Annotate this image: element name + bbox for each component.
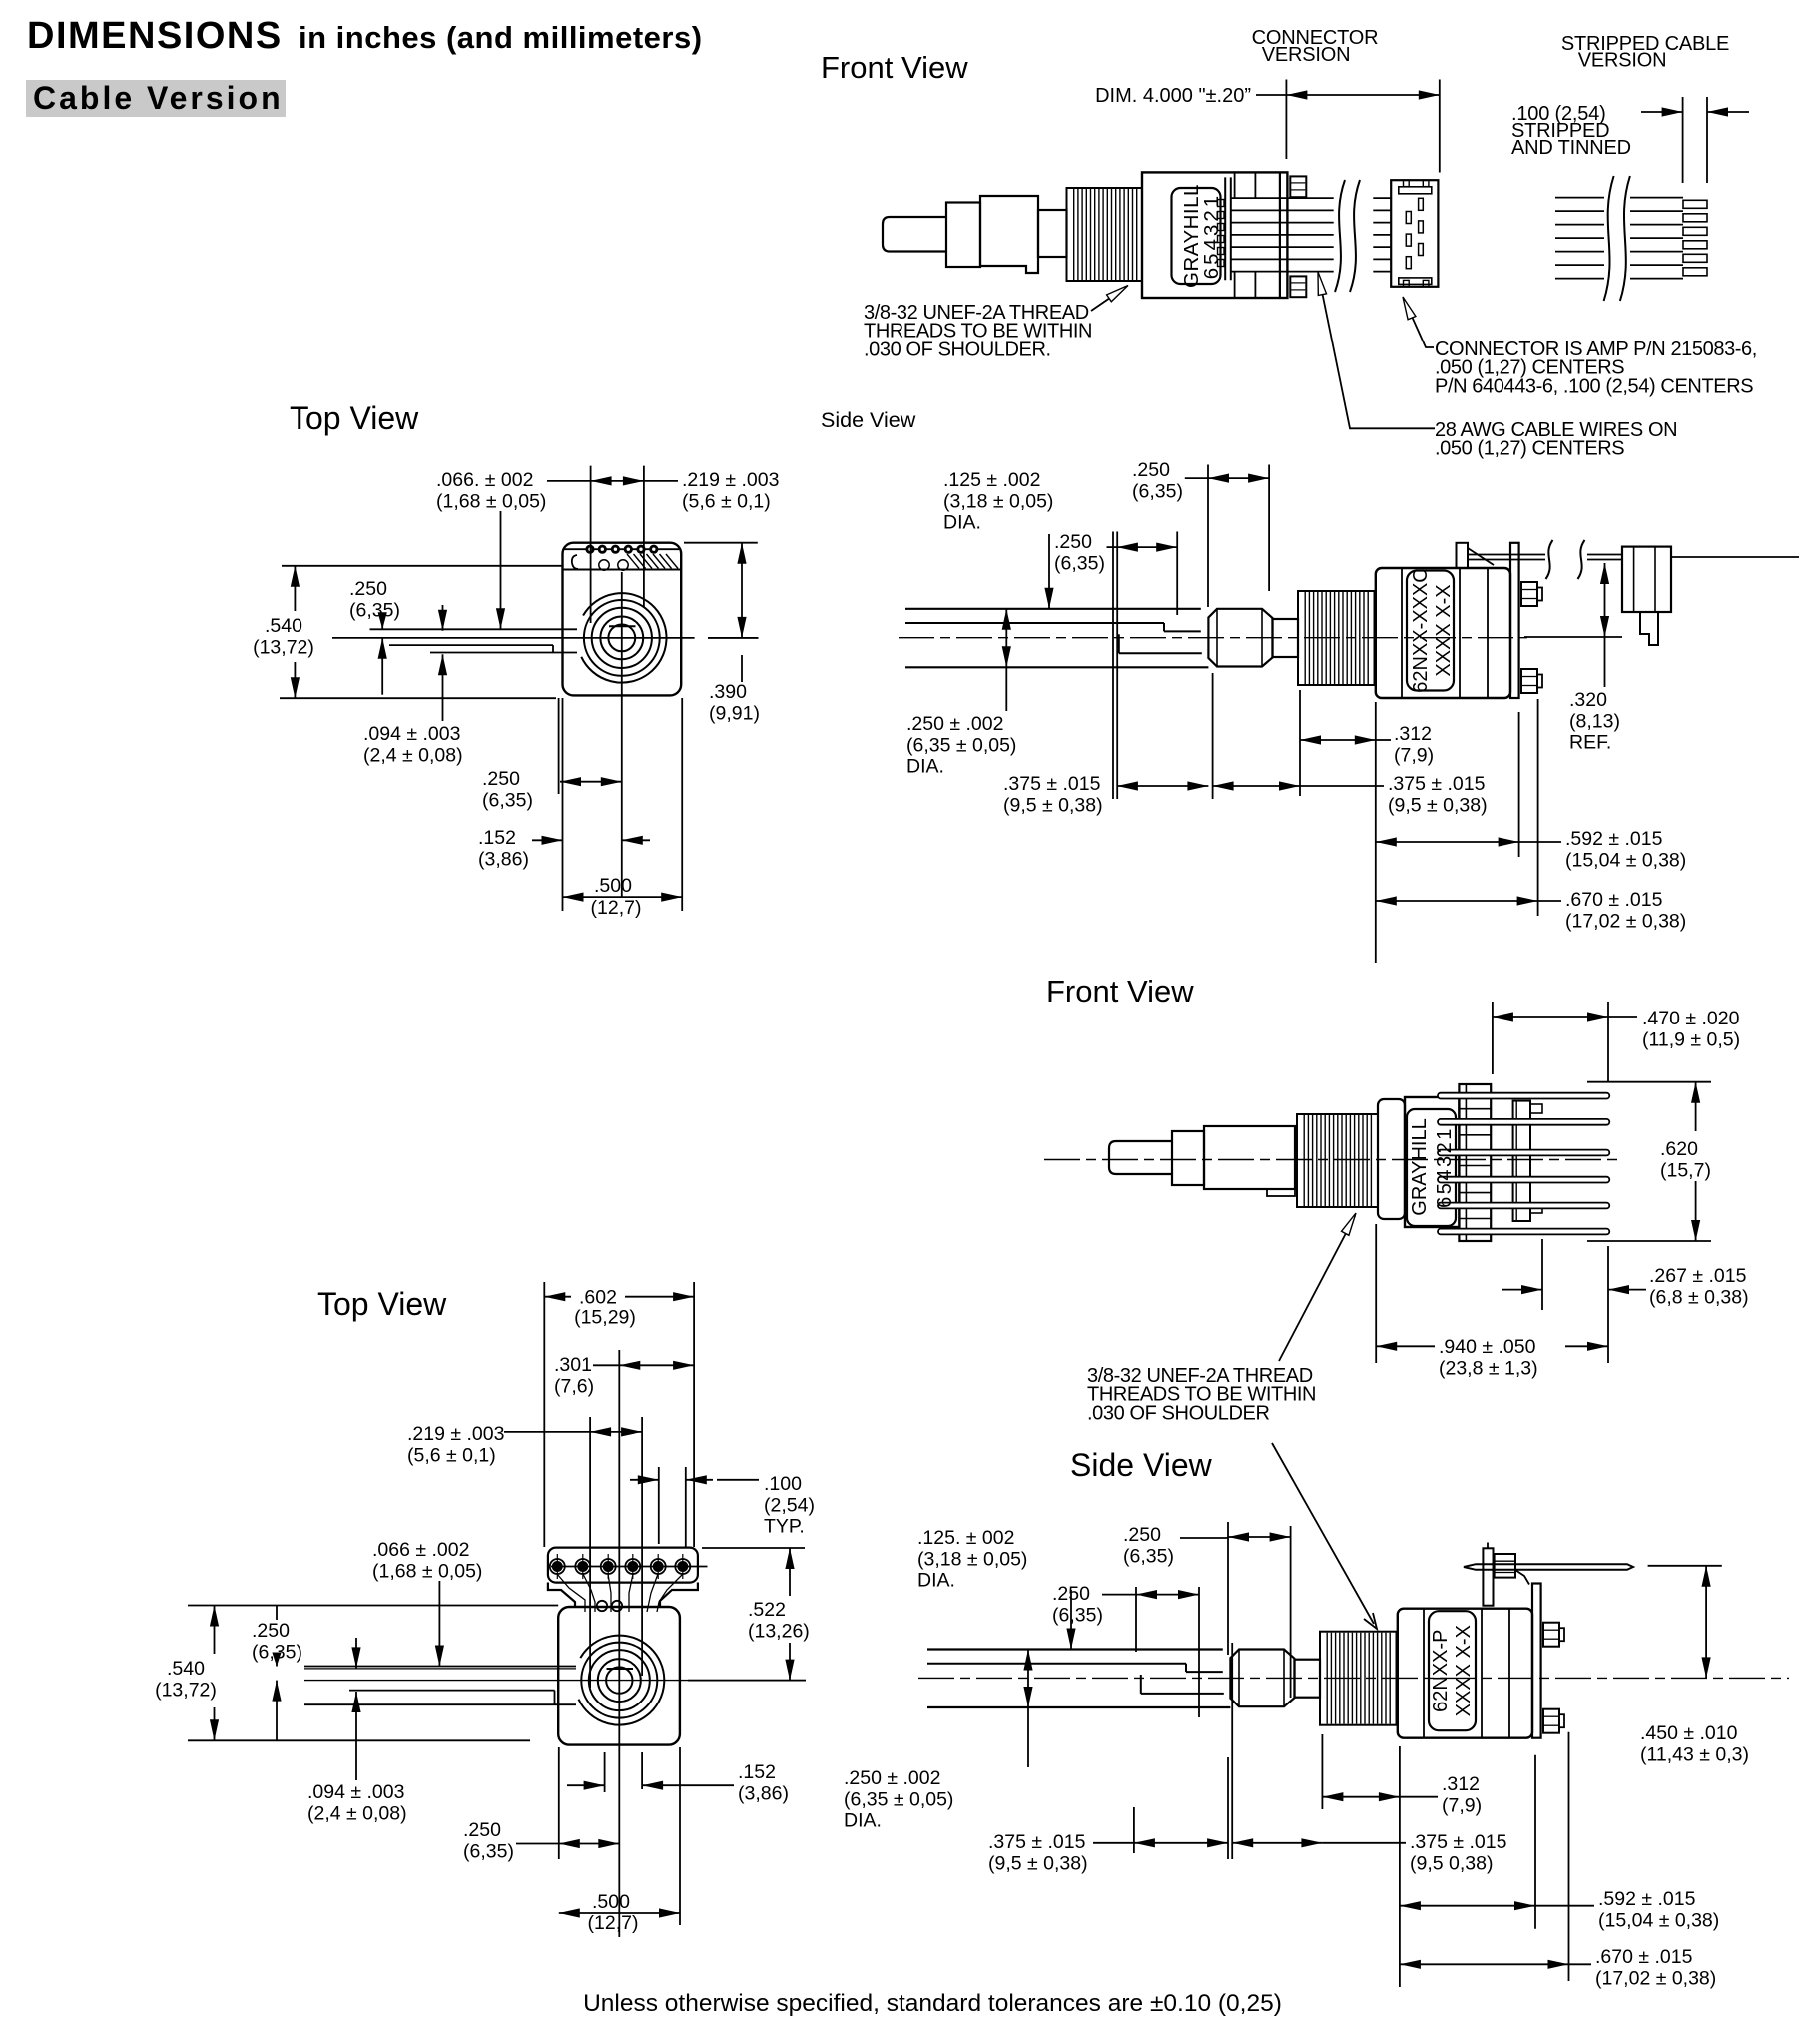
svg-text:.152: .152 xyxy=(478,827,516,849)
svg-text:DIA.: DIA. xyxy=(906,756,944,778)
svg-text:(2,4 ± 0,08): (2,4 ± 0,08) xyxy=(307,1802,407,1824)
svg-text:.450 ± .010: .450 ± .010 xyxy=(1640,1722,1738,1744)
svg-text:.250: .250 xyxy=(1054,531,1092,553)
svg-text:.250: .250 xyxy=(1132,459,1170,481)
svg-text:.312: .312 xyxy=(1394,723,1432,745)
svg-text:(15,04 ± 0,38): (15,04 ± 0,38) xyxy=(1598,1909,1719,1931)
svg-text:(6,35): (6,35) xyxy=(463,1840,514,1862)
svg-text:(9,5 ± 0,38): (9,5 ± 0,38) xyxy=(988,1852,1088,1874)
svg-text:Top View: Top View xyxy=(317,1286,447,1322)
svg-text:.250: .250 xyxy=(463,1819,501,1841)
svg-text:.301: .301 xyxy=(554,1354,592,1376)
svg-text:(12,7): (12,7) xyxy=(588,1912,639,1934)
svg-text:.125 ± .002: .125 ± .002 xyxy=(943,469,1040,491)
svg-text:(9,5 ± 0,38): (9,5 ± 0,38) xyxy=(1003,794,1103,816)
svg-text:.030 OF SHOULDER.: .030 OF SHOULDER. xyxy=(864,339,1051,360)
svg-text:(1,68 ± 0,05): (1,68 ± 0,05) xyxy=(372,1560,482,1582)
svg-text:(7,9): (7,9) xyxy=(1394,744,1434,766)
svg-text:.219 ± .003: .219 ± .003 xyxy=(407,1423,504,1445)
svg-text:.500: .500 xyxy=(592,1891,630,1913)
svg-text:.940 ± .050: .940 ± .050 xyxy=(1439,1336,1536,1358)
svg-text:DIM. 4.000 "±.20”: DIM. 4.000 "±.20” xyxy=(1095,85,1251,107)
svg-text:Top View: Top View xyxy=(290,400,419,436)
svg-text:.094 ± .003: .094 ± .003 xyxy=(363,723,460,745)
svg-text:Side View: Side View xyxy=(821,408,916,432)
svg-text:.320: .320 xyxy=(1569,689,1607,711)
svg-text:Side View: Side View xyxy=(1070,1447,1213,1483)
svg-text:(9,5 0,38): (9,5 0,38) xyxy=(1410,1852,1493,1874)
svg-text:.592 ± .015: .592 ± .015 xyxy=(1598,1888,1696,1910)
svg-text:.250: .250 xyxy=(482,768,520,790)
svg-text:VERSION: VERSION xyxy=(1578,50,1667,72)
svg-text:62NXX-P: 62NXX-P xyxy=(1430,1630,1452,1712)
svg-text:.066. ± 002: .066. ± 002 xyxy=(436,469,533,491)
svg-text:.250 ± .002: .250 ± .002 xyxy=(844,1767,940,1789)
svg-text:(11,43 ± 0,3): (11,43 ± 0,3) xyxy=(1640,1743,1749,1765)
svg-text:VERSION: VERSION xyxy=(1262,44,1351,66)
svg-text:(5,6 ± 0,1): (5,6 ± 0,1) xyxy=(407,1444,496,1466)
svg-text:GRAYHILL: GRAYHILL xyxy=(1409,1118,1431,1215)
svg-text:.030 OF SHOULDER: .030 OF SHOULDER xyxy=(1087,1402,1270,1424)
svg-text:(6,35): (6,35) xyxy=(1123,1545,1174,1567)
svg-text:(3,18 ± 0,05): (3,18 ± 0,05) xyxy=(943,490,1053,512)
svg-text:.540: .540 xyxy=(167,1658,205,1680)
svg-text:(15,29): (15,29) xyxy=(574,1307,636,1329)
svg-text:TYP.: TYP. xyxy=(764,1516,805,1538)
svg-text:REF.: REF. xyxy=(1569,732,1611,754)
svg-text:.390: .390 xyxy=(709,681,747,703)
svg-text:.375 ± .015: .375 ± .015 xyxy=(1388,773,1486,795)
svg-text:.250: .250 xyxy=(1123,1524,1161,1546)
svg-text:.066 ± .002: .066 ± .002 xyxy=(372,1539,469,1561)
svg-text:.100: .100 xyxy=(764,1473,802,1495)
svg-text:(7,6): (7,6) xyxy=(554,1375,594,1397)
svg-text:(9,5 ± 0,38): (9,5 ± 0,38) xyxy=(1388,794,1488,816)
svg-text:.375 ± .015: .375 ± .015 xyxy=(1003,773,1101,795)
svg-text:.602: .602 xyxy=(579,1287,617,1309)
svg-text:DIA.: DIA. xyxy=(917,1570,955,1592)
svg-text:.670 ± .015: .670 ± .015 xyxy=(1565,889,1663,911)
svg-text:.125. ± 002: .125. ± 002 xyxy=(917,1527,1014,1549)
svg-text:DIA.: DIA. xyxy=(844,1810,882,1832)
svg-text:Front View: Front View xyxy=(821,50,968,85)
svg-text:(6,35): (6,35) xyxy=(1052,1604,1103,1626)
svg-text:(2,54): (2,54) xyxy=(764,1494,815,1516)
svg-text:.592 ± .015: .592 ± .015 xyxy=(1565,828,1663,850)
svg-text:P/N 640443-6, .100 (2,54) CENT: P/N 640443-6, .100 (2,54) CENTERS xyxy=(1435,375,1753,397)
svg-text:(13,72): (13,72) xyxy=(253,636,314,658)
svg-text:(17,02 ± 0,38): (17,02 ± 0,38) xyxy=(1565,910,1686,932)
svg-text:(6,35 ± 0,05): (6,35 ± 0,05) xyxy=(844,1788,953,1810)
svg-text:(12,7): (12,7) xyxy=(591,897,642,919)
svg-text:.500: .500 xyxy=(594,875,632,897)
svg-text:(23,8 ± 1,3): (23,8 ± 1,3) xyxy=(1439,1357,1538,1379)
svg-text:XXXX X-X: XXXX X-X xyxy=(1433,584,1455,676)
svg-text:(17,02 ± 0,38): (17,02 ± 0,38) xyxy=(1595,1967,1716,1989)
svg-text:DIMENSIONS: DIMENSIONS xyxy=(27,15,283,57)
svg-text:AND TINNED: AND TINNED xyxy=(1511,137,1631,159)
svg-text:(3,86): (3,86) xyxy=(478,848,529,870)
svg-text:Front View: Front View xyxy=(1046,974,1194,1009)
svg-text:(6,35): (6,35) xyxy=(349,599,400,621)
svg-text:(3,18 ± 0,05): (3,18 ± 0,05) xyxy=(917,1548,1027,1570)
svg-text:(7,9): (7,9) xyxy=(1442,1794,1482,1816)
svg-text:(2,4 ± 0,08): (2,4 ± 0,08) xyxy=(363,744,463,766)
svg-text:.312: .312 xyxy=(1442,1773,1480,1795)
svg-text:.250: .250 xyxy=(349,578,387,600)
svg-text:.470 ± .020: .470 ± .020 xyxy=(1642,1008,1740,1029)
svg-text:.267 ± .015: .267 ± .015 xyxy=(1649,1265,1747,1287)
svg-text:(6,35): (6,35) xyxy=(482,789,533,811)
svg-text:(15,04 ± 0,38): (15,04 ± 0,38) xyxy=(1565,849,1686,871)
svg-text:.522: .522 xyxy=(748,1599,786,1621)
svg-text:DIA.: DIA. xyxy=(943,512,981,534)
svg-text:.620: .620 xyxy=(1660,1138,1698,1160)
svg-text:654321: 654321 xyxy=(1434,1126,1456,1208)
svg-text:Cable Version: Cable Version xyxy=(33,80,284,116)
svg-text:.250: .250 xyxy=(252,1620,290,1642)
svg-text:(5,6 ± 0,1): (5,6 ± 0,1) xyxy=(682,490,771,512)
svg-text:(6,35): (6,35) xyxy=(1054,552,1105,574)
svg-text:in inches (and millimeters): in inches (and millimeters) xyxy=(299,20,703,55)
svg-text:.375 ± .015: .375 ± .015 xyxy=(988,1831,1086,1853)
svg-text:(6,8 ± 0,38): (6,8 ± 0,38) xyxy=(1649,1286,1749,1308)
svg-text:62NXX-XXXC: 62NXX-XXXC xyxy=(1410,568,1432,693)
svg-text:(13,72): (13,72) xyxy=(155,1679,217,1701)
svg-text:Unless otherwise specified, st: Unless otherwise specified, standard tol… xyxy=(583,1990,1282,2017)
svg-text:(9,91): (9,91) xyxy=(709,702,760,724)
svg-text:.250 ± .002: .250 ± .002 xyxy=(906,713,1003,735)
svg-text:(15,7): (15,7) xyxy=(1660,1159,1711,1181)
svg-text:(11,9 ± 0,5): (11,9 ± 0,5) xyxy=(1642,1028,1740,1050)
svg-text:.670 ± .015: .670 ± .015 xyxy=(1595,1946,1693,1968)
svg-text:XXXX X-X: XXXX X-X xyxy=(1453,1625,1475,1716)
svg-text:(3,86): (3,86) xyxy=(738,1782,789,1804)
svg-text:(8,13): (8,13) xyxy=(1569,710,1620,732)
svg-text:(1,68 ± 0,05): (1,68 ± 0,05) xyxy=(436,490,546,512)
svg-text:(6,35): (6,35) xyxy=(1132,480,1183,502)
svg-text:.050 (1,27) CENTERS: .050 (1,27) CENTERS xyxy=(1435,438,1624,460)
svg-text:(13,26): (13,26) xyxy=(748,1620,810,1642)
svg-text:(6,35 ± 0,05): (6,35 ± 0,05) xyxy=(906,734,1016,756)
svg-text:.094 ± .003: .094 ± .003 xyxy=(307,1781,404,1803)
svg-text:.152: .152 xyxy=(738,1761,776,1783)
svg-text:.375 ± .015: .375 ± .015 xyxy=(1410,1831,1507,1853)
svg-text:.540: .540 xyxy=(265,615,302,637)
svg-text:.219 ± .003: .219 ± .003 xyxy=(682,469,779,491)
